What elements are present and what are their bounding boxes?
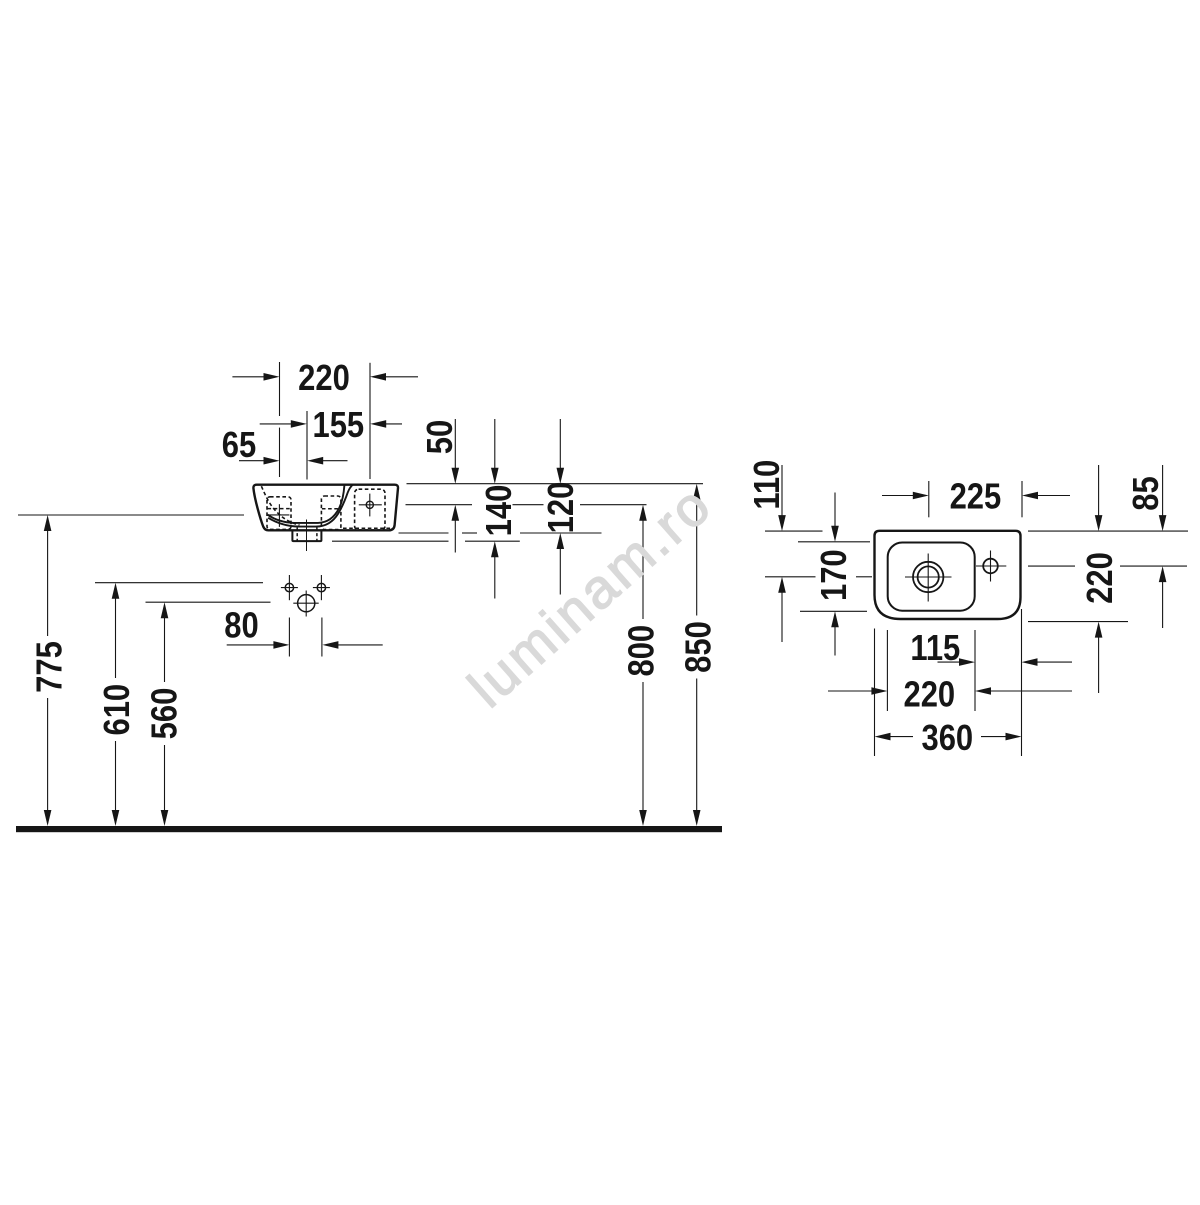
svg-text:775: 775: [30, 641, 70, 693]
svg-text:110: 110: [748, 460, 788, 510]
svg-text:65: 65: [222, 426, 256, 466]
svg-text:140: 140: [480, 485, 520, 537]
svg-text:120: 120: [542, 482, 582, 534]
svg-text:80: 80: [224, 607, 258, 647]
svg-text:850: 850: [679, 621, 719, 673]
svg-text:560: 560: [145, 688, 185, 740]
svg-text:360: 360: [921, 719, 973, 759]
svg-text:85: 85: [1127, 476, 1167, 510]
svg-text:610: 610: [98, 684, 138, 736]
svg-text:115: 115: [910, 629, 960, 669]
svg-text:225: 225: [950, 478, 1002, 518]
svg-text:170: 170: [815, 549, 855, 601]
svg-text:800: 800: [622, 625, 662, 677]
svg-text:50: 50: [421, 420, 461, 454]
svg-text:220: 220: [298, 359, 350, 399]
svg-text:155: 155: [312, 406, 364, 446]
svg-text:220: 220: [1081, 552, 1121, 604]
svg-text:220: 220: [903, 675, 955, 715]
